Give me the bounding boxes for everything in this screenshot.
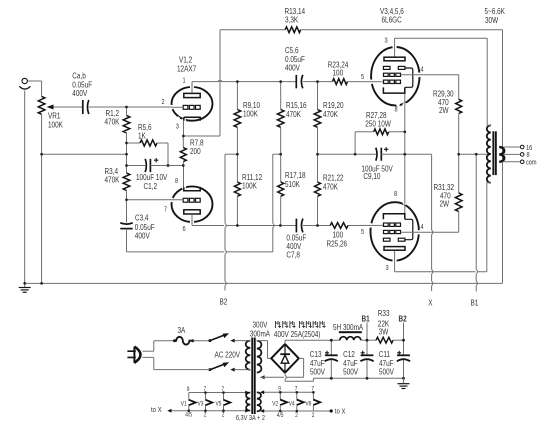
svg-text:4: 4 <box>420 66 424 74</box>
svg-text:to X: to X <box>335 408 346 416</box>
svg-text:400V: 400V <box>285 63 300 73</box>
svg-text:4: 4 <box>420 223 424 231</box>
svg-text:1K: 1K <box>138 131 146 141</box>
svg-text:300mA: 300mA <box>250 329 270 339</box>
svg-text:8: 8 <box>175 177 179 185</box>
svg-text:V1: V1 <box>181 401 187 408</box>
svg-text:470K: 470K <box>104 117 119 127</box>
svg-text:6,3V 3A + 2: 6,3V 3A + 2 <box>236 414 265 422</box>
svg-text:500V: 500V <box>379 367 394 377</box>
svg-text:5H 300mA: 5H 300mA <box>333 322 363 332</box>
svg-text:9: 9 <box>187 386 190 393</box>
svg-text:6L6GC: 6L6GC <box>382 15 402 25</box>
svg-text:500V: 500V <box>343 367 358 377</box>
svg-text:V5: V5 <box>216 401 222 408</box>
svg-text:100K: 100K <box>243 109 258 119</box>
svg-text:12AX7: 12AX7 <box>177 64 196 74</box>
svg-text:510K: 510K <box>285 179 300 189</box>
svg-text:2: 2 <box>312 413 315 420</box>
svg-text:30W: 30W <box>485 15 498 25</box>
svg-text:3W: 3W <box>379 327 389 337</box>
svg-text:V3: V3 <box>198 401 204 408</box>
svg-text:V4: V4 <box>289 401 295 408</box>
svg-text:6: 6 <box>182 225 186 233</box>
svg-text:C9,10: C9,10 <box>363 171 380 181</box>
svg-text:B2: B2 <box>220 297 228 307</box>
svg-text:3: 3 <box>386 264 390 272</box>
svg-text:100: 100 <box>332 68 343 78</box>
svg-text:3: 3 <box>176 123 180 131</box>
svg-text:B1: B1 <box>470 298 478 308</box>
svg-text:470K: 470K <box>323 109 338 119</box>
svg-text:250 10W: 250 10W <box>365 119 391 129</box>
svg-text:2: 2 <box>295 413 298 420</box>
svg-text:470K: 470K <box>323 182 338 192</box>
svg-text:1: 1 <box>182 77 186 85</box>
svg-text:7: 7 <box>164 206 168 214</box>
svg-text:400V 25A(2504): 400V 25A(2504) <box>274 329 321 339</box>
svg-text:2: 2 <box>204 412 207 419</box>
svg-text:5: 5 <box>361 73 365 81</box>
svg-text:470K: 470K <box>286 109 301 119</box>
svg-text:AC 220V: AC 220V <box>214 350 240 360</box>
svg-text:4/5: 4/5 <box>277 413 284 420</box>
svg-text:4/5: 4/5 <box>185 412 192 419</box>
svg-text:C7,8: C7,8 <box>286 250 300 260</box>
svg-text:5: 5 <box>361 228 365 236</box>
svg-text:100K: 100K <box>242 181 257 191</box>
svg-text:3A: 3A <box>178 325 186 335</box>
svg-text:400V: 400V <box>72 88 87 98</box>
svg-text:500V: 500V <box>310 367 325 377</box>
svg-text:470K: 470K <box>104 175 119 185</box>
svg-text:3,3K: 3,3K <box>285 15 298 25</box>
svg-text:to X: to X <box>151 406 162 414</box>
svg-text:400V: 400V <box>135 231 150 241</box>
svg-text:100K: 100K <box>48 120 63 130</box>
svg-text:V2: V2 <box>272 401 278 408</box>
svg-text:com: com <box>526 159 537 167</box>
svg-text:B2: B2 <box>398 314 406 324</box>
svg-text:V6: V6 <box>305 401 311 408</box>
svg-text:8: 8 <box>394 190 398 198</box>
svg-text:2W: 2W <box>439 105 449 115</box>
svg-text:2W: 2W <box>440 199 450 209</box>
svg-text:R33: R33 <box>378 308 390 318</box>
svg-text:8: 8 <box>394 106 398 114</box>
svg-text:C1,2: C1,2 <box>144 181 158 191</box>
svg-text:R25,26: R25,26 <box>326 239 347 249</box>
svg-text:2: 2 <box>162 98 166 106</box>
svg-text:X: X <box>428 298 432 308</box>
svg-text:200: 200 <box>190 146 201 156</box>
svg-text:3: 3 <box>384 37 388 45</box>
svg-text:2: 2 <box>222 412 225 419</box>
